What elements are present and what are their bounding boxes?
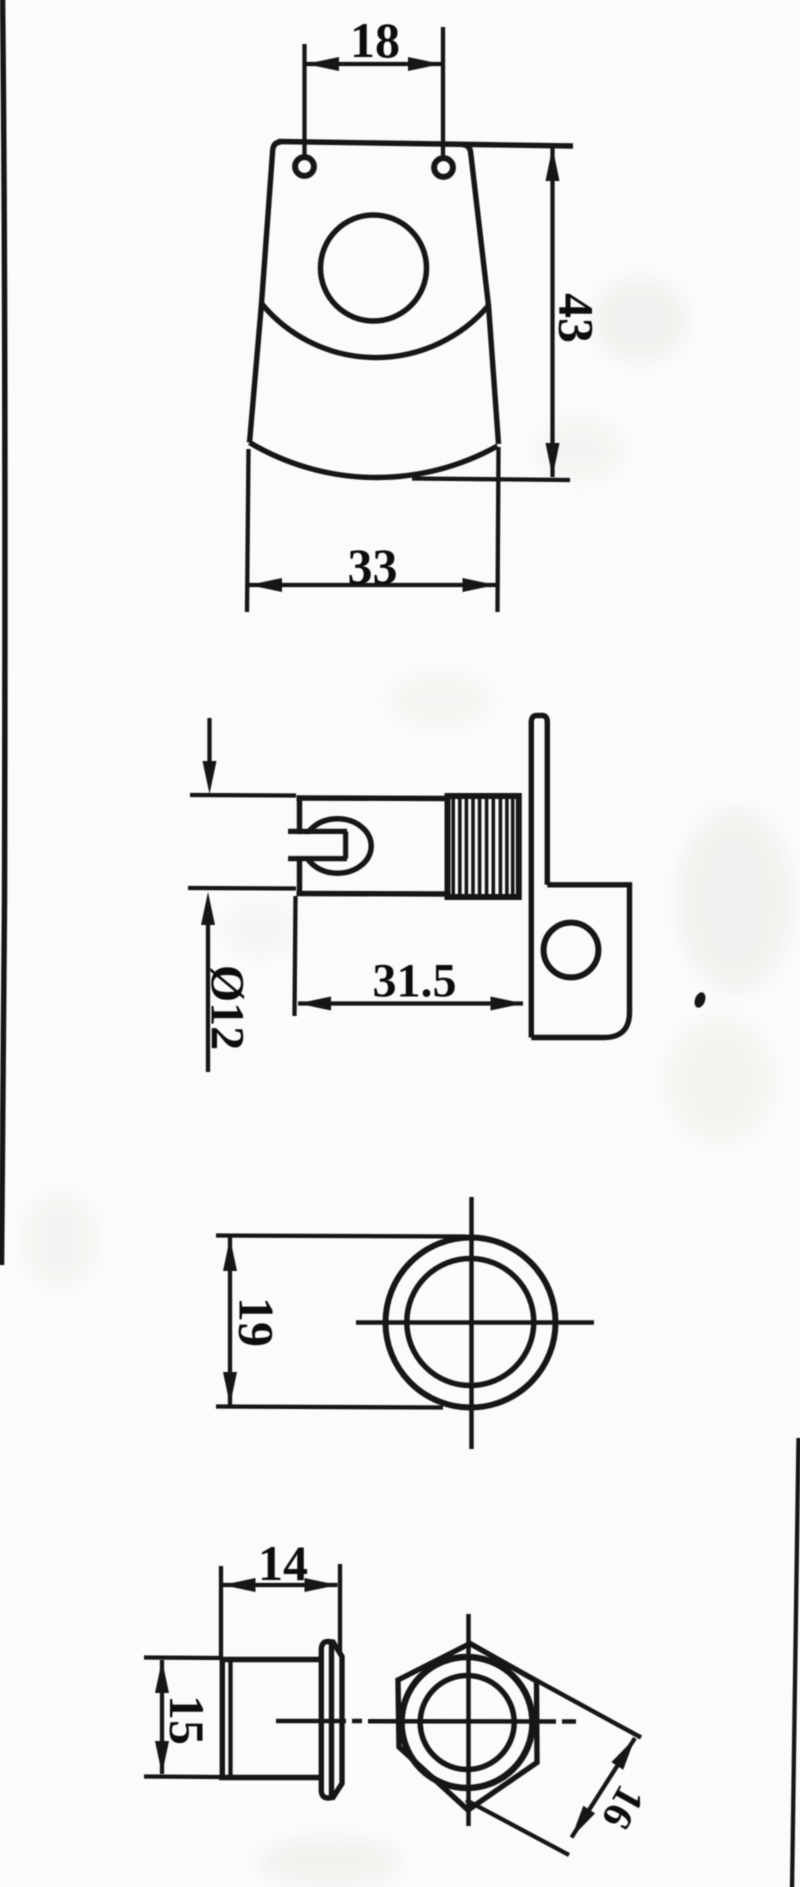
dim 19 top ext line <box>216 1236 466 1237</box>
dim 15 arrow bottom <box>155 1741 169 1774</box>
dim 18 line <box>306 62 441 66</box>
dim 31.5 line <box>298 1001 523 1005</box>
dim 19 line <box>228 1237 232 1406</box>
slot end line <box>343 832 348 859</box>
dim 14 ext line right <box>338 1564 342 1653</box>
scan edge right-bottom <box>792 1438 799 1887</box>
flange outline <box>321 1642 342 1799</box>
dim 15 line <box>160 1660 164 1774</box>
dim 31.5 arrow left <box>298 997 331 1011</box>
slot whiteout <box>283 835 346 857</box>
dim d12 arrow up <box>201 892 215 925</box>
dim 19 arrow bottom <box>223 1372 237 1405</box>
bracket hole <box>544 923 599 978</box>
dim 16 upper ext line <box>470 1644 641 1738</box>
dim d12 lower ext line <box>188 886 296 891</box>
dim 16 lower ext line <box>466 1800 569 1855</box>
body bottom edge <box>297 891 448 897</box>
dim 18 arrow left <box>306 57 339 71</box>
hex nut polygon <box>398 1644 537 1811</box>
bushing left edge <box>220 1658 225 1780</box>
dim 31.5 left ext line <box>295 896 296 1016</box>
screw hole right <box>434 158 453 177</box>
dim 14 ext line left <box>219 1566 223 1657</box>
dim 15 arrow top <box>155 1660 169 1693</box>
dim d12 upper leader <box>207 718 211 770</box>
nut inner circle <box>420 1676 514 1770</box>
dim 14 arrow right <box>305 1578 338 1592</box>
body left edge <box>297 796 302 897</box>
dim 15 bottom ext line <box>144 1774 219 1779</box>
svg-text:14: 14 <box>258 1535 308 1591</box>
dim 19 bottom ext line <box>216 1407 443 1408</box>
svg-text:15: 15 <box>159 1695 215 1745</box>
screw hole left <box>295 157 314 176</box>
slot bottom line <box>288 856 347 861</box>
dim d12 upper ext line <box>190 793 296 798</box>
dim d12 arrow down <box>203 761 217 794</box>
dim 16 arrow upper <box>611 1738 635 1770</box>
dim 33 ext line left <box>247 449 249 612</box>
bracket strip left edge <box>531 716 537 1038</box>
dim 31.5 arrow right <box>491 997 524 1011</box>
dim 18 arrow right <box>408 57 441 71</box>
svg-text:43: 43 <box>549 293 605 343</box>
housing mid arc <box>262 304 489 358</box>
big hole <box>321 215 427 321</box>
dim d12 lower leader <box>206 916 210 1072</box>
bushing left inner edge <box>228 1660 232 1778</box>
dim 43 arrow bottom <box>546 443 560 477</box>
svg-text:Ø12: Ø12 <box>201 965 254 1050</box>
dim 18 ext line right <box>441 27 445 157</box>
thread lines <box>453 797 513 896</box>
housing bottom arc <box>250 443 498 478</box>
bushing bottom edge <box>219 1775 319 1780</box>
dim 14 arrow left <box>223 1578 256 1592</box>
dim 33 arrow left <box>249 578 282 592</box>
washer inner circle <box>407 1259 534 1386</box>
svg-text:19: 19 <box>229 1297 285 1347</box>
bracket strip right edge <box>537 716 547 885</box>
bracket plate <box>531 885 629 1038</box>
dim 33 line <box>249 583 496 587</box>
thread block border <box>448 796 519 897</box>
dim 14 line <box>223 1583 338 1587</box>
body top edge <box>297 795 448 801</box>
washer vertical centerline <box>469 1197 474 1449</box>
housing top edge + 43 extension <box>278 142 573 147</box>
svg-text:33: 33 <box>348 538 398 594</box>
housing right edge <box>462 145 499 445</box>
flange inner line <box>329 1642 334 1798</box>
dim 43 line <box>550 147 554 477</box>
dim 33 arrow right <box>463 578 496 592</box>
housing left edge <box>250 142 282 443</box>
dim 16 arrow lower <box>572 1806 596 1838</box>
washer horizontal centerline <box>356 1320 594 1325</box>
shaft end ellipse <box>304 819 371 873</box>
scan edge left <box>2 0 5 1265</box>
slot top line <box>288 829 347 834</box>
dim 33 ext line right <box>498 447 499 612</box>
nut vertical centerline <box>466 1614 471 1826</box>
dim 43 arrow top <box>546 147 560 181</box>
scan blob <box>693 991 708 1009</box>
dim 43 bottom ext line <box>412 479 570 481</box>
dim 15 top ext line <box>144 1655 220 1660</box>
dim 16 line <box>572 1738 636 1838</box>
nut outer circle <box>402 1657 533 1788</box>
bushing top edge <box>220 1657 319 1662</box>
svg-text:18: 18 <box>350 12 400 68</box>
washer outer circle <box>386 1238 556 1408</box>
dim 18 ext line left <box>302 44 306 156</box>
dim 19 arrow top <box>223 1238 237 1271</box>
svg-text:31.5: 31.5 <box>373 955 457 1008</box>
bushing centerline <box>276 1719 346 1724</box>
